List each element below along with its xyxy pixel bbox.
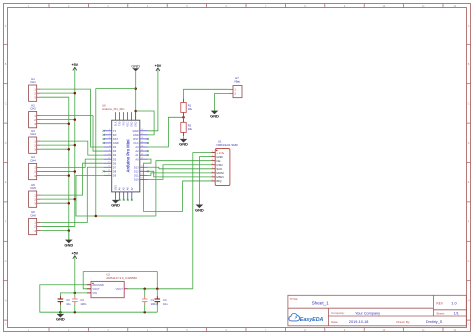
svg-text:CH5: CH5 <box>30 186 36 190</box>
svg-text:Date:: Date: <box>331 320 338 324</box>
svg-text:10u: 10u <box>66 302 71 306</box>
svg-text:D4: D4 <box>113 153 117 157</box>
svg-text:RXI: RXI <box>123 121 126 125</box>
svg-text:21: 21 <box>141 166 143 168</box>
svg-text:C4: C4 <box>163 298 167 302</box>
svg-text:D13: D13 <box>134 165 139 169</box>
svg-text:10k: 10k <box>188 107 193 111</box>
svg-text:G: G <box>468 260 470 263</box>
svg-text:RST: RST <box>133 137 139 141</box>
svg-text:Arduino_Pro_Min: Arduino_Pro_Min <box>102 107 125 111</box>
svg-text:+5V: +5V <box>71 252 78 256</box>
svg-text:11: 11 <box>108 157 110 159</box>
svg-text:CH6: CH6 <box>30 214 36 218</box>
svg-text:10k: 10k <box>188 127 193 131</box>
svg-text:RX: RX <box>113 133 117 137</box>
svg-text:C2: C2 <box>80 298 84 302</box>
svg-text:7: 7 <box>109 141 110 143</box>
svg-text:RST: RST <box>113 137 119 141</box>
svg-text:D5: D5 <box>113 157 117 161</box>
svg-text:GND: GND <box>131 121 134 127</box>
svg-text:D: D <box>468 142 470 145</box>
svg-text:18: 18 <box>141 178 143 180</box>
svg-text:RAW: RAW <box>133 129 140 133</box>
svg-text:GND: GND <box>131 63 140 68</box>
svg-text:23: 23 <box>141 157 143 159</box>
svg-text:REV: REV <box>436 302 443 306</box>
svg-text:25: 25 <box>141 149 143 151</box>
svg-text:5: 5 <box>212 167 213 169</box>
svg-text:6: 6 <box>109 137 110 139</box>
svg-text:5: 5 <box>109 133 110 135</box>
svg-text:A2: A2 <box>135 149 139 153</box>
svg-text:D9: D9 <box>113 173 117 177</box>
svg-text:VBat: VBat <box>234 79 240 83</box>
svg-text:13: 13 <box>108 166 110 168</box>
svg-text:100n: 100n <box>80 302 86 306</box>
svg-text:A0: A0 <box>135 157 139 161</box>
svg-text:C: C <box>5 102 7 105</box>
svg-text:1/1: 1/1 <box>454 312 459 316</box>
svg-text:ADJ/GND: ADJ/GND <box>92 283 104 287</box>
svg-text:GND: GND <box>210 113 219 118</box>
svg-text:Dmitriy_S: Dmitriy_S <box>426 320 443 324</box>
svg-text:R1: R1 <box>188 103 192 107</box>
svg-text:1.0: 1.0 <box>451 301 457 306</box>
svg-text:10: 10 <box>108 153 110 155</box>
svg-text:7: 7 <box>212 175 213 177</box>
svg-text:VOUT: VOUT <box>116 287 124 291</box>
svg-text:26: 26 <box>141 145 143 147</box>
svg-text:H: H <box>5 299 7 302</box>
svg-text:VCC: VCC <box>133 141 139 145</box>
svg-text:Arduino Pro Mini: Arduino Pro Mini <box>126 140 131 173</box>
svg-text:28: 28 <box>141 137 143 139</box>
svg-text:30: 30 <box>141 129 143 131</box>
svg-text:CH1: CH1 <box>30 80 36 84</box>
svg-text:8: 8 <box>109 145 110 147</box>
svg-text:VCC: VCC <box>127 121 130 126</box>
svg-text:4: 4 <box>212 163 213 165</box>
svg-text:CH3: CH3 <box>30 132 36 136</box>
svg-text:8: 8 <box>212 179 213 181</box>
svg-text:D7: D7 <box>113 165 117 169</box>
svg-text:GND: GND <box>115 185 118 191</box>
svg-text:14: 14 <box>108 170 110 172</box>
svg-text:GND: GND <box>64 242 73 247</box>
svg-text:GND: GND <box>56 317 65 322</box>
svg-text:NRF24L01 SMD: NRF24L01 SMD <box>217 143 238 147</box>
svg-text:2019-10-18: 2019-10-18 <box>349 320 368 324</box>
svg-text:G: G <box>5 260 7 263</box>
svg-text:D3: D3 <box>113 149 117 153</box>
svg-text:4: 4 <box>109 129 110 131</box>
svg-text:D8: D8 <box>113 169 117 173</box>
svg-text:IRQ: IRQ <box>216 179 222 183</box>
svg-text:10u: 10u <box>163 302 168 306</box>
svg-text:Company:: Company: <box>331 311 345 315</box>
svg-text:Sheet_1: Sheet_1 <box>312 301 330 306</box>
svg-text:+5V: +5V <box>155 64 162 68</box>
svg-text:D12: D12 <box>134 169 139 173</box>
svg-text:D: D <box>5 142 7 145</box>
svg-text:1: 1 <box>212 151 213 153</box>
svg-text:29: 29 <box>141 133 143 135</box>
svg-text:CH4: CH4 <box>30 159 36 163</box>
svg-text:19: 19 <box>141 174 143 176</box>
svg-text:A3: A3 <box>135 145 139 149</box>
svg-text:TX: TX <box>113 129 117 133</box>
svg-text:20: 20 <box>141 170 143 172</box>
svg-text:VOUT: VOUT <box>92 287 100 291</box>
svg-text:C1: C1 <box>151 298 155 302</box>
svg-text:H: H <box>468 299 470 302</box>
svg-text:100n: 100n <box>151 302 157 306</box>
svg-text:Drawn By:: Drawn By: <box>396 320 410 324</box>
svg-text:12: 12 <box>108 162 110 164</box>
svg-text:VIN: VIN <box>92 291 96 295</box>
svg-text:C3: C3 <box>66 298 70 302</box>
svg-text:R2: R2 <box>188 123 192 127</box>
svg-text:D10: D10 <box>134 178 139 182</box>
svg-text:TITLE:: TITLE: <box>290 297 299 301</box>
svg-text:GND: GND <box>135 121 138 127</box>
svg-text:+5V: +5V <box>71 63 78 67</box>
svg-text:TX0: TX0 <box>119 121 122 126</box>
svg-text:GND: GND <box>113 141 119 145</box>
svg-text:24: 24 <box>141 153 143 155</box>
svg-text:Your Company: Your Company <box>355 311 380 315</box>
svg-text:CH2: CH2 <box>30 107 36 111</box>
svg-text:27: 27 <box>141 141 143 143</box>
svg-text:15: 15 <box>108 174 110 176</box>
svg-text:GND: GND <box>179 142 188 147</box>
svg-text:BLK: BLK <box>115 121 118 126</box>
svg-text:GND: GND <box>111 203 120 208</box>
svg-text:9: 9 <box>109 149 110 151</box>
svg-text:C: C <box>468 102 470 105</box>
svg-text:Sheet:: Sheet: <box>436 311 445 315</box>
svg-text:GND: GND <box>195 207 204 212</box>
svg-text:A1: A1 <box>135 153 139 157</box>
svg-text:EasyEDA: EasyEDA <box>300 317 324 323</box>
svg-text:AMS1117-3.3_C426566: AMS1117-3.3_C426566 <box>106 276 137 280</box>
svg-text:2: 2 <box>212 155 213 157</box>
svg-text:D6: D6 <box>113 161 117 165</box>
svg-text:GND: GND <box>133 133 139 137</box>
svg-text:3: 3 <box>212 159 213 161</box>
svg-text:6: 6 <box>212 171 213 173</box>
svg-text:D2: D2 <box>113 145 117 149</box>
svg-text:D11: D11 <box>134 173 139 177</box>
